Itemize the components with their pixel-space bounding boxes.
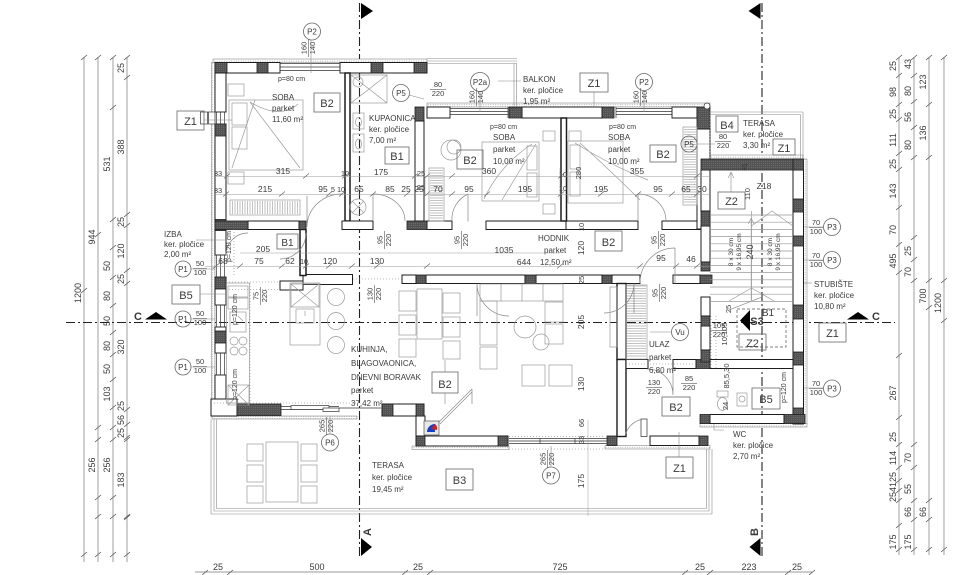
wall between izba hall and kitchen bbox=[300, 230, 306, 276]
kitchen counter along left wall bbox=[227, 283, 250, 405]
svg-text:B2: B2 bbox=[438, 379, 451, 391]
stairs bbox=[710, 172, 793, 370]
svg-text:50: 50 bbox=[102, 261, 112, 271]
svg-text:Z2: Z2 bbox=[725, 196, 738, 208]
S3 triangle bbox=[740, 310, 750, 331]
svg-text:50: 50 bbox=[196, 259, 204, 268]
svg-text:95: 95 bbox=[464, 184, 474, 194]
left dimension ticks bbox=[81, 55, 130, 557]
svg-text:33: 33 bbox=[577, 436, 586, 444]
living south wall west corner bbox=[211, 399, 237, 416]
right soba door bbox=[638, 194, 666, 221]
svg-text:25: 25 bbox=[903, 246, 913, 256]
svg-text:25: 25 bbox=[888, 159, 898, 169]
svg-text:B2: B2 bbox=[656, 149, 669, 161]
svg-text:175: 175 bbox=[576, 474, 586, 488]
stair block west wall runs bbox=[701, 170, 710, 211]
fraction dims in rooms bbox=[252, 231, 728, 396]
hodnik opening arcs to living bbox=[477, 284, 509, 317]
wc fixtures bbox=[717, 391, 747, 411]
left wall runs bbox=[215, 73, 226, 112]
svg-text:140: 140 bbox=[476, 91, 485, 104]
section line C horizontal bbox=[66, 322, 895, 324]
svg-text:175: 175 bbox=[888, 534, 898, 549]
svg-text:25: 25 bbox=[724, 305, 733, 313]
bottom dimension line bbox=[195, 571, 812, 573]
svg-text:KUPAONICA: KUPAONICA bbox=[369, 114, 416, 123]
svg-text:parket: parket bbox=[544, 246, 567, 255]
svg-text:220: 220 bbox=[648, 387, 661, 396]
kupaonica east wall bbox=[415, 121, 424, 221]
svg-text:500: 500 bbox=[309, 562, 324, 572]
svg-text:130: 130 bbox=[648, 378, 661, 387]
svg-text:parket: parket bbox=[272, 104, 295, 113]
svg-text:700: 700 bbox=[918, 288, 928, 303]
svg-text:55: 55 bbox=[903, 484, 913, 494]
svg-text:56: 56 bbox=[116, 415, 126, 425]
svg-text:ker. pločice: ker. pločice bbox=[743, 130, 784, 139]
svg-text:BALKON: BALKON bbox=[523, 75, 556, 84]
svg-text:P3: P3 bbox=[827, 385, 837, 394]
svg-text:315: 315 bbox=[276, 166, 290, 176]
svg-text:p=80 cm: p=80 cm bbox=[278, 76, 305, 83]
svg-text:parket: parket bbox=[608, 145, 631, 154]
svg-text:p=120 cm: p=120 cm bbox=[232, 294, 239, 325]
svg-text:p=120 cm: p=120 cm bbox=[781, 372, 788, 403]
svg-text:220: 220 bbox=[260, 290, 269, 303]
svg-text:320: 320 bbox=[116, 339, 126, 354]
big terrace outline bbox=[211, 420, 712, 515]
svg-text:parket: parket bbox=[351, 386, 374, 395]
mid wall between sobas bbox=[561, 118, 567, 221]
svg-text:220: 220 bbox=[658, 234, 667, 247]
svg-text:95: 95 bbox=[653, 184, 663, 194]
svg-text:75: 75 bbox=[254, 256, 264, 266]
svg-text:37,42 m²: 37,42 m² bbox=[351, 399, 383, 408]
inner dimension lines bbox=[205, 168, 710, 516]
svg-text:105: 105 bbox=[713, 321, 726, 330]
svg-text:95: 95 bbox=[318, 184, 328, 194]
svg-text:B2: B2 bbox=[463, 155, 476, 167]
svg-text:A: A bbox=[362, 528, 374, 536]
svg-text:P5: P5 bbox=[396, 89, 406, 98]
wardrobe soba 11.60 (comb) bbox=[230, 200, 300, 215]
svg-text:25: 25 bbox=[792, 562, 802, 572]
svg-text:360: 360 bbox=[482, 166, 496, 176]
svg-text:1200: 1200 bbox=[73, 283, 83, 303]
svg-text:100: 100 bbox=[194, 318, 207, 327]
room name texts bbox=[164, 75, 855, 494]
south wall of bedroom strip (hodnik north wall) bbox=[248, 221, 299, 230]
svg-text:220: 220 bbox=[384, 234, 393, 247]
stair south wall / wc north bbox=[626, 360, 648, 369]
svg-text:10: 10 bbox=[559, 184, 567, 193]
stair block east wall bbox=[793, 170, 804, 424]
porch step walls bbox=[382, 404, 424, 416]
svg-text:B2: B2 bbox=[669, 402, 682, 414]
svg-text:11,60 m²: 11,60 m² bbox=[272, 115, 303, 124]
svg-text:195: 195 bbox=[518, 184, 532, 194]
left dimension labels bbox=[73, 63, 126, 488]
svg-text:C: C bbox=[872, 311, 880, 323]
svg-text:140: 140 bbox=[640, 91, 649, 104]
svg-text:644: 644 bbox=[517, 257, 531, 267]
svg-text:70: 70 bbox=[903, 267, 913, 277]
fraction labels beside circles bbox=[193, 39, 823, 468]
svg-text:STUBIŠTE: STUBIŠTE bbox=[814, 280, 853, 289]
svg-text:25: 25 bbox=[695, 562, 705, 572]
svg-text:43: 43 bbox=[903, 59, 913, 69]
svg-text:Z2: Z2 bbox=[746, 338, 759, 350]
svg-text:ker. pločice: ker. pločice bbox=[164, 240, 205, 249]
svg-text:10: 10 bbox=[577, 223, 586, 231]
svg-text:B3: B3 bbox=[453, 475, 466, 487]
svg-text:25: 25 bbox=[417, 169, 425, 178]
svg-text:50: 50 bbox=[196, 357, 204, 366]
svg-text:WC: WC bbox=[733, 430, 747, 439]
svg-text:6,80 m²: 6,80 m² bbox=[649, 366, 676, 375]
svg-text:24: 24 bbox=[721, 402, 730, 410]
svg-text:25: 25 bbox=[888, 472, 898, 482]
svg-text:111: 111 bbox=[888, 133, 898, 147]
svg-text:80: 80 bbox=[434, 80, 442, 89]
svg-text:8 x 30 cm: 8 x 30 cm bbox=[767, 238, 774, 266]
svg-text:2,70 m²: 2,70 m² bbox=[733, 452, 760, 461]
svg-text:p=120 cm: p=120 cm bbox=[232, 369, 239, 400]
svg-text:220: 220 bbox=[374, 288, 383, 301]
north wall of soba rooms bbox=[427, 107, 450, 118]
svg-text:3,30 m²: 3,30 m² bbox=[743, 141, 770, 150]
svg-text:Z1: Z1 bbox=[588, 78, 601, 90]
svg-text:ker. pločice: ker. pločice bbox=[372, 473, 413, 482]
svg-text:25: 25 bbox=[401, 184, 411, 194]
svg-text:ker. pločice: ker. pločice bbox=[523, 86, 564, 95]
svg-text:50: 50 bbox=[102, 364, 112, 374]
svg-text:P3: P3 bbox=[827, 223, 837, 232]
svg-text:114: 114 bbox=[888, 451, 898, 465]
svg-text:ker. pločice: ker. pločice bbox=[369, 125, 410, 134]
svg-text:25: 25 bbox=[413, 562, 423, 572]
svg-text:B2: B2 bbox=[320, 98, 333, 110]
ulaz bottom wall bbox=[650, 436, 699, 446]
dark hatched piers bbox=[215, 63, 805, 447]
svg-text:65: 65 bbox=[354, 184, 364, 194]
soba 11.60 door bbox=[307, 194, 342, 227]
svg-text:SOBA: SOBA bbox=[608, 133, 631, 142]
svg-text:240: 240 bbox=[745, 244, 755, 259]
left wall windows bbox=[215, 112, 226, 124]
svg-text:62: 62 bbox=[285, 256, 295, 266]
ulaz front door bbox=[641, 419, 647, 437]
svg-text:80: 80 bbox=[102, 291, 112, 301]
svg-text:215: 215 bbox=[258, 184, 272, 194]
svg-text:2,00 m²: 2,00 m² bbox=[164, 250, 191, 259]
svg-text:B1: B1 bbox=[762, 308, 775, 319]
svg-text:25: 25 bbox=[213, 562, 223, 572]
svg-text:183: 183 bbox=[116, 472, 126, 487]
svg-text:220: 220 bbox=[713, 330, 726, 339]
svg-text:100: 100 bbox=[194, 268, 207, 277]
svg-text:223: 223 bbox=[741, 562, 756, 572]
svg-text:25: 25 bbox=[116, 428, 126, 438]
boxed type labels bbox=[172, 73, 846, 490]
svg-text:10,00 m²: 10,00 m² bbox=[493, 157, 525, 166]
leader lines bbox=[191, 40, 824, 467]
section line B vertical bbox=[761, 3, 763, 556]
svg-text:220: 220 bbox=[326, 420, 335, 433]
svg-text:136: 136 bbox=[918, 125, 928, 140]
svg-text:SOBA: SOBA bbox=[493, 133, 516, 142]
svg-text:25: 25 bbox=[116, 63, 126, 73]
svg-text:S3: S3 bbox=[750, 316, 763, 328]
ulaz west wall bbox=[617, 284, 626, 360]
svg-text:HODNIK: HODNIK bbox=[538, 234, 570, 243]
window top wall bbox=[201, 63, 673, 444]
svg-text:10,00 m²: 10,00 m² bbox=[608, 157, 640, 166]
top wall bbox=[215, 63, 280, 74]
svg-text:P7: P7 bbox=[546, 472, 556, 481]
svg-text:100: 100 bbox=[810, 227, 823, 236]
svg-text:P1: P1 bbox=[178, 363, 188, 372]
svg-text:110: 110 bbox=[743, 188, 752, 200]
svg-text:70: 70 bbox=[812, 379, 820, 388]
svg-text:SOBA: SOBA bbox=[272, 93, 295, 102]
kupaonica toilet and bidet bbox=[350, 113, 366, 215]
svg-text:1035: 1035 bbox=[495, 245, 514, 255]
balkon railing bbox=[427, 59, 517, 108]
svg-text:25: 25 bbox=[414, 184, 424, 194]
svg-text:388: 388 bbox=[116, 139, 126, 154]
svg-text:50: 50 bbox=[196, 309, 204, 318]
svg-text:P2: P2 bbox=[639, 78, 649, 87]
svg-text:220: 220 bbox=[683, 383, 696, 392]
svg-text:80: 80 bbox=[903, 140, 913, 150]
svg-text:130: 130 bbox=[370, 256, 384, 266]
dimension row y172 bbox=[214, 163, 782, 488]
right dimension labels bbox=[888, 59, 943, 550]
svg-text:25: 25 bbox=[888, 61, 898, 71]
svg-text:P1: P1 bbox=[178, 265, 188, 274]
svg-text:25: 25 bbox=[888, 109, 898, 119]
svg-text:Z1: Z1 bbox=[673, 463, 686, 475]
left dimension chain lines bbox=[83, 57, 85, 562]
terrace dining set bbox=[247, 442, 317, 503]
svg-text:120: 120 bbox=[323, 256, 337, 266]
right soba wardrobe bbox=[683, 127, 697, 205]
kitchen island bbox=[290, 283, 345, 354]
svg-text:495: 495 bbox=[888, 253, 898, 268]
svg-text:BLAGOVAONICA,: BLAGOVAONICA, bbox=[351, 359, 416, 368]
svg-text:944: 944 bbox=[87, 229, 97, 244]
svg-text:parket: parket bbox=[493, 145, 516, 154]
svg-text:66: 66 bbox=[577, 419, 586, 427]
svg-text:DNEVNI BORAVAK: DNEVNI BORAVAK bbox=[351, 373, 422, 382]
svg-text:25: 25 bbox=[888, 492, 898, 502]
svg-text:P6: P6 bbox=[325, 439, 335, 448]
svg-text:10: 10 bbox=[300, 259, 308, 266]
svg-text:100: 100 bbox=[810, 388, 823, 397]
hodnik south wall bbox=[303, 275, 353, 285]
svg-text:531: 531 bbox=[102, 156, 112, 171]
svg-text:P2: P2 bbox=[307, 28, 317, 37]
svg-text:10: 10 bbox=[337, 187, 345, 194]
svg-text:70: 70 bbox=[903, 453, 913, 463]
svg-text:103: 103 bbox=[102, 386, 112, 401]
svg-text:85: 85 bbox=[685, 374, 693, 383]
svg-text:355: 355 bbox=[630, 166, 644, 176]
svg-text:KUHINJA,: KUHINJA, bbox=[351, 345, 387, 354]
svg-text:143: 143 bbox=[888, 183, 898, 198]
svg-text:parket: parket bbox=[649, 353, 672, 362]
svg-text:31: 31 bbox=[742, 163, 749, 171]
svg-text:80: 80 bbox=[719, 132, 727, 141]
svg-text:98: 98 bbox=[888, 87, 898, 97]
svg-text:B1: B1 bbox=[390, 151, 403, 163]
svg-text:Z1: Z1 bbox=[826, 328, 839, 340]
kupaonica shower bbox=[351, 75, 387, 103]
svg-text:1200: 1200 bbox=[933, 293, 943, 313]
logo icon bbox=[424, 421, 439, 435]
right soba bed bbox=[568, 131, 648, 203]
window left soba p=80 bbox=[450, 107, 508, 118]
sofa group bbox=[480, 284, 572, 386]
svg-text:25: 25 bbox=[577, 276, 586, 284]
svg-text:7,00 m²: 7,00 m² bbox=[369, 136, 396, 145]
svg-text:8 x 30 cm: 8 x 30 cm bbox=[728, 238, 735, 266]
svg-text:25: 25 bbox=[116, 217, 126, 227]
svg-text:280: 280 bbox=[574, 167, 583, 180]
svg-text:220: 220 bbox=[547, 453, 556, 466]
svg-text:205: 205 bbox=[576, 315, 586, 329]
svg-text:68: 68 bbox=[218, 256, 228, 266]
right dimension chain lines bbox=[898, 57, 900, 555]
window right soba p=80 bbox=[616, 107, 672, 118]
kupaonica west wall bbox=[345, 73, 350, 221]
svg-text:C: C bbox=[134, 311, 142, 323]
svg-text:10: 10 bbox=[341, 169, 349, 178]
svg-text:220: 220 bbox=[461, 234, 470, 247]
svg-text:120: 120 bbox=[116, 243, 126, 258]
svg-text:Vu: Vu bbox=[675, 328, 685, 337]
svg-text:175: 175 bbox=[903, 534, 913, 549]
svg-text:19,45 m²: 19,45 m² bbox=[372, 485, 404, 494]
dining table and chairs bbox=[399, 289, 460, 359]
svg-text:P3: P3 bbox=[827, 256, 837, 265]
svg-text:10,80 m²: 10,80 m² bbox=[814, 302, 846, 311]
svg-text:33: 33 bbox=[214, 186, 222, 195]
east wall of right soba / ulaz bbox=[697, 129, 710, 229]
left soba: plant circle bbox=[441, 140, 461, 160]
circled window labels bbox=[175, 23, 841, 484]
svg-text:66: 66 bbox=[918, 507, 928, 517]
roof wedge at entry bbox=[437, 389, 472, 424]
svg-text:80: 80 bbox=[102, 341, 112, 351]
glazing P7 porch front bbox=[509, 439, 607, 444]
svg-text:12,50 m²: 12,50 m² bbox=[540, 258, 572, 267]
svg-text:85,5,30: 85,5,30 bbox=[722, 363, 731, 388]
svg-text:33: 33 bbox=[214, 169, 222, 178]
svg-text:P5: P5 bbox=[684, 140, 694, 149]
izba arcs bbox=[226, 233, 306, 259]
svg-text:70: 70 bbox=[812, 218, 820, 227]
svg-text:256: 256 bbox=[102, 457, 112, 472]
svg-text:B5: B5 bbox=[179, 290, 192, 302]
svg-text:220: 220 bbox=[432, 89, 445, 98]
bed soba 11.60 bbox=[228, 84, 303, 184]
svg-text:95: 95 bbox=[656, 253, 666, 263]
stair shaft dashed bbox=[737, 309, 786, 347]
column circle bbox=[704, 103, 710, 109]
svg-text:ULAZ: ULAZ bbox=[649, 340, 670, 349]
svg-text:TERASA: TERASA bbox=[743, 119, 776, 128]
svg-text:70: 70 bbox=[888, 225, 898, 235]
left soba door bbox=[452, 194, 468, 222]
svg-text:100: 100 bbox=[810, 260, 823, 269]
svg-text:130: 130 bbox=[576, 377, 586, 391]
section line A vertical bbox=[359, 3, 361, 556]
svg-text:41: 41 bbox=[888, 482, 898, 492]
svg-text:25: 25 bbox=[116, 401, 126, 411]
svg-text:9 x 16,95 cm: 9 x 16,95 cm bbox=[775, 233, 782, 270]
svg-text:B: B bbox=[749, 528, 761, 536]
svg-text:256: 256 bbox=[87, 457, 97, 472]
svg-text:B5: B5 bbox=[759, 394, 772, 406]
svg-text:p=80 cm: p=80 cm bbox=[609, 124, 636, 131]
wc door bbox=[647, 369, 673, 395]
svg-text:P1: P1 bbox=[178, 315, 188, 324]
svg-text:56: 56 bbox=[903, 112, 913, 122]
door to stair block bbox=[640, 248, 675, 284]
wc bottom wall bbox=[710, 415, 784, 424]
svg-text:TERASA: TERASA bbox=[372, 461, 405, 470]
svg-text:Z18: Z18 bbox=[757, 181, 772, 191]
svg-text:IZBA: IZBA bbox=[164, 230, 182, 239]
insulation strips (dotted) bbox=[212, 59, 808, 450]
svg-text:205: 205 bbox=[256, 244, 270, 254]
svg-text:Z1: Z1 bbox=[184, 116, 197, 128]
svg-text:65: 65 bbox=[681, 184, 691, 194]
svg-text:30: 30 bbox=[697, 184, 707, 194]
svg-text:175: 175 bbox=[374, 167, 388, 177]
svg-text:70: 70 bbox=[433, 184, 443, 194]
ulaz wardrobe bbox=[610, 285, 647, 359]
left soba bed bbox=[482, 131, 555, 214]
svg-text:10: 10 bbox=[559, 170, 567, 179]
kupaonica door bbox=[373, 194, 405, 221]
svg-text:46: 46 bbox=[686, 254, 696, 264]
svg-text:B2: B2 bbox=[602, 237, 615, 249]
svg-text:120: 120 bbox=[576, 241, 586, 255]
svg-text:5: 5 bbox=[331, 187, 335, 194]
interior door arcs bbox=[226, 194, 675, 395]
svg-text:9 x 16,95 cm: 9 x 16,95 cm bbox=[736, 233, 743, 270]
left soba wardrobe bbox=[429, 168, 444, 221]
svg-text:80: 80 bbox=[903, 86, 913, 96]
svg-text:66: 66 bbox=[903, 507, 913, 517]
terasa B4 outline bbox=[710, 112, 803, 159]
svg-text:100: 100 bbox=[194, 366, 207, 375]
svg-text:70: 70 bbox=[812, 251, 820, 260]
svg-text:50: 50 bbox=[102, 316, 112, 326]
svg-text:220: 220 bbox=[659, 287, 668, 300]
svg-text:ker. pločice: ker. pločice bbox=[814, 291, 855, 300]
glazing P6 living south bbox=[281, 407, 381, 410]
svg-text:725: 725 bbox=[552, 562, 567, 572]
svg-text:25: 25 bbox=[888, 432, 898, 442]
svg-text:ker. pločice: ker. pločice bbox=[733, 441, 774, 450]
svg-text:195: 195 bbox=[594, 184, 608, 194]
svg-text:1,95 m²: 1,95 m² bbox=[523, 97, 550, 106]
